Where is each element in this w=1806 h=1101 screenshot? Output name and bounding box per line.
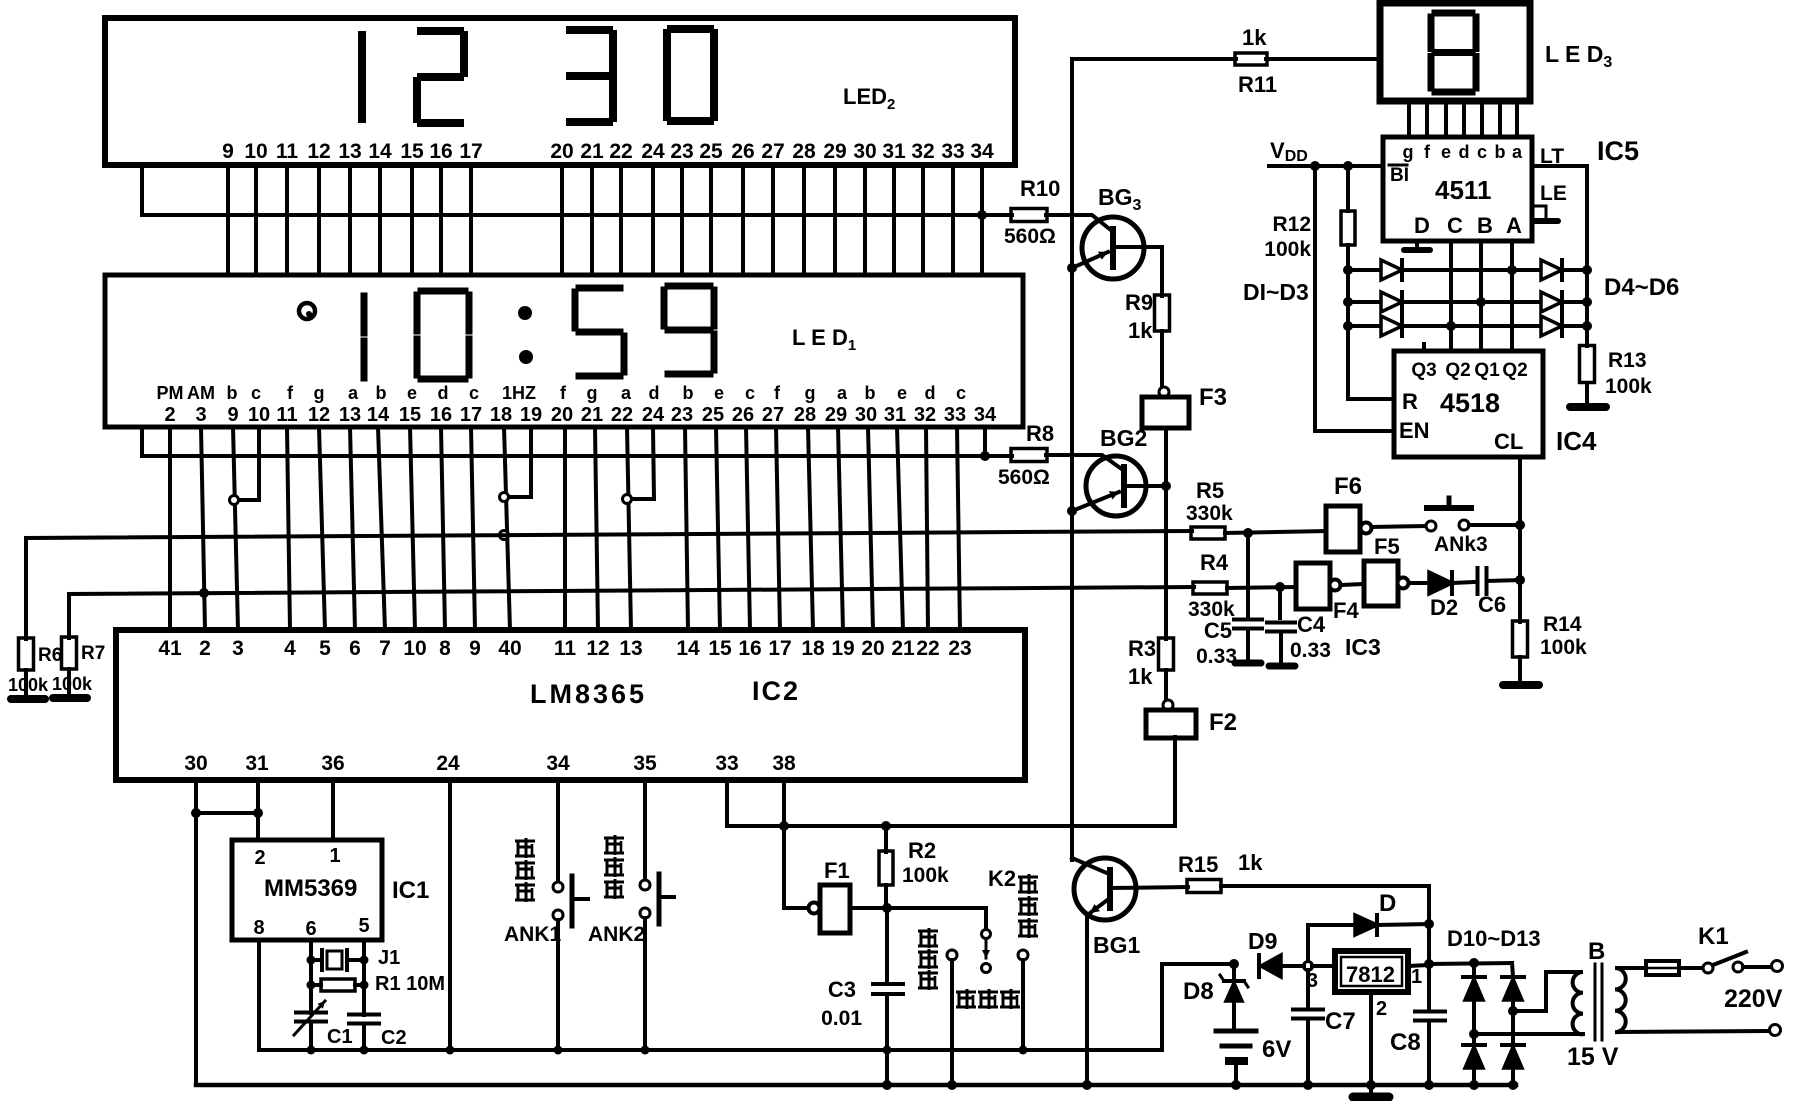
wire LED1 pin19 jog	[529, 427, 533, 497]
svg-text:MM5369: MM5369	[264, 875, 357, 902]
IC U2 LM8365 box	[116, 630, 1025, 780]
svg-text:IC2: IC2	[752, 676, 800, 706]
resistor R13 100k	[1580, 346, 1595, 383]
transistor BG1	[1074, 858, 1136, 920]
svg-text:1k: 1k	[1238, 850, 1263, 875]
svg-text:20: 20	[861, 637, 884, 660]
svg-text:33: 33	[941, 140, 964, 163]
wire left tap to primary bottom	[1474, 1032, 1583, 1036]
LED2 digit 1 (of 12)	[358, 35, 366, 73]
svg-text:IC4: IC4	[1556, 426, 1597, 456]
label 调时分	[1018, 876, 1038, 879]
wire 7812 pin2 to bus	[1369, 992, 1373, 1085]
svg-text:b: b	[1495, 142, 1506, 162]
wire IC2 pin36 to IC1 pin1	[331, 780, 335, 840]
svg-text:F6: F6	[1334, 473, 1362, 500]
wire K2 right contact to inner bus	[1021, 960, 1025, 1050]
svg-text:f: f	[287, 383, 294, 403]
wire IC4 CL pin rail	[1518, 457, 1522, 622]
svg-text:f: f	[1424, 142, 1431, 162]
svg-text:11: 11	[554, 637, 577, 660]
svg-text:2: 2	[1376, 998, 1387, 1020]
svg-text:R14: R14	[1543, 613, 1582, 636]
svg-text:BI: BI	[1390, 165, 1409, 186]
switch ANK2	[640, 880, 650, 890]
junction R2 top	[881, 821, 891, 831]
svg-text:5: 5	[358, 915, 369, 937]
svg-text:7: 7	[379, 637, 391, 660]
svg-text:R1 10M: R1 10M	[375, 973, 445, 995]
resistor R1 10M	[321, 979, 355, 991]
junction bridge left column top	[1469, 958, 1479, 968]
diode D5	[1481, 300, 1541, 304]
LED2 digit 3	[570, 26, 609, 34]
wire node to K2 common	[887, 908, 986, 929]
wire LED1 pin34 stub	[983, 427, 987, 456]
svg-text:B: B	[1588, 938, 1605, 965]
svg-text:0.01: 0.01	[821, 1007, 862, 1030]
wire node A from R6 to R5 (alarm line)	[26, 531, 1192, 639]
svg-text:6V: 6V	[1262, 1036, 1291, 1063]
svg-text:b: b	[683, 383, 694, 403]
wire IC2 pin31 to IC1 pin2	[256, 780, 260, 840]
ground R7	[67, 669, 71, 696]
svg-text:4518: 4518	[1440, 388, 1500, 418]
display LED3 box	[1380, 3, 1530, 101]
svg-text:C1: C1	[327, 1026, 353, 1048]
svg-text:17: 17	[460, 404, 482, 426]
svg-text:10: 10	[248, 404, 270, 426]
svg-text:C6: C6	[1478, 592, 1506, 617]
resistor R14 100k	[1513, 621, 1528, 657]
svg-text:12: 12	[308, 404, 330, 426]
diode D12	[1463, 1043, 1485, 1047]
svg-text:L E D3: L E D3	[1545, 41, 1612, 71]
svg-text:ANK1: ANK1	[504, 923, 561, 946]
svg-text:Q2: Q2	[1502, 360, 1527, 381]
svg-text:17: 17	[459, 140, 482, 163]
svg-text:a: a	[1512, 142, 1523, 162]
wire D4-D6 right rail to R13	[1585, 270, 1589, 346]
zener diode D8	[1232, 964, 1236, 980]
resistor R15 1k	[1187, 880, 1221, 893]
LED1 digit 1 (of 10)	[361, 296, 368, 333]
svg-text:c: c	[956, 383, 966, 403]
junction circle pin10 jog	[230, 496, 239, 505]
junction BG2 collector	[1161, 481, 1171, 491]
resistor R3 1k	[1159, 638, 1174, 670]
svg-text:28: 28	[794, 404, 816, 426]
wires LED3 to IC5	[1407, 101, 1411, 137]
junction bridge left tap	[1469, 1029, 1479, 1039]
label 双显示	[956, 991, 976, 994]
svg-text:D: D	[1414, 213, 1430, 238]
svg-text:R4: R4	[1200, 550, 1229, 575]
junction bridge right tap	[1508, 1006, 1518, 1016]
svg-text:16: 16	[429, 140, 452, 163]
svg-text:14: 14	[676, 637, 700, 660]
svg-text:C7: C7	[1325, 1008, 1356, 1035]
fuse	[1646, 961, 1679, 975]
svg-text:22: 22	[916, 637, 939, 660]
svg-text:IC5: IC5	[1597, 136, 1639, 166]
svg-text:IC3: IC3	[1345, 634, 1381, 660]
transformer B secondary winding	[1615, 968, 1626, 1032]
transistor BG3	[1082, 217, 1144, 279]
junction ANK3 on CL rail	[1515, 520, 1525, 530]
wire bridge top	[1429, 963, 1512, 964]
resistor R7	[62, 637, 77, 669]
svg-text:R12: R12	[1272, 213, 1311, 236]
svg-text:a: a	[837, 383, 848, 403]
svg-text:d: d	[438, 383, 449, 403]
IC U4 4518 box	[1394, 351, 1543, 457]
svg-text:R: R	[1402, 389, 1418, 414]
svg-text:13: 13	[339, 404, 361, 426]
svg-text:30: 30	[184, 752, 207, 775]
svg-text:18: 18	[801, 637, 825, 660]
svg-text:LE: LE	[1540, 182, 1567, 205]
wire IC2 pin34 to ANK1	[556, 780, 560, 882]
svg-text:34: 34	[546, 752, 570, 775]
svg-text:100k: 100k	[8, 675, 49, 695]
svg-text:a: a	[348, 383, 359, 403]
junction LED2 pin34 / R10 line	[977, 210, 987, 220]
wire D1-D3 left rail	[1348, 270, 1394, 399]
svg-text:30: 30	[855, 404, 877, 426]
svg-text:d: d	[649, 383, 660, 403]
svg-text:g: g	[314, 383, 325, 403]
svg-text:24: 24	[642, 404, 665, 426]
svg-text:11: 11	[276, 404, 297, 426]
wire F3 to BG2 collector to R3	[1164, 428, 1168, 639]
wire F4 to F5	[1341, 584, 1364, 585]
svg-text:21: 21	[580, 140, 604, 163]
svg-text:c: c	[745, 383, 755, 403]
diode D (right of 7812)	[1308, 925, 1355, 962]
svg-text:6: 6	[305, 918, 316, 940]
svg-text:30: 30	[853, 140, 876, 163]
svg-text:100k: 100k	[52, 674, 93, 694]
svg-text:12: 12	[586, 637, 609, 660]
svg-text:c: c	[251, 383, 261, 403]
svg-text:100k: 100k	[1605, 375, 1652, 398]
svg-text:1: 1	[1411, 966, 1422, 988]
wire F1 input	[784, 826, 808, 908]
IC U5 4511 box	[1383, 137, 1532, 241]
svg-text:c: c	[1477, 142, 1487, 162]
svg-text:e: e	[714, 383, 724, 403]
capacitor C3 0.01	[885, 908, 889, 980]
wire IC2 pin33 line to F2	[727, 737, 1175, 826]
svg-text:b: b	[865, 383, 876, 403]
gate F3	[1159, 387, 1169, 397]
svg-text:19: 19	[520, 404, 542, 426]
label 调月日	[918, 930, 938, 933]
resistor R9 1k	[1160, 247, 1164, 296]
junction circle line A	[500, 531, 509, 540]
svg-text:330k: 330k	[1186, 502, 1233, 525]
svg-text:33: 33	[944, 404, 966, 426]
resistor R12 100k	[1346, 166, 1350, 211]
wire 4511 C column	[1449, 241, 1453, 351]
svg-text:29: 29	[825, 404, 847, 426]
wire 4511 B column	[1479, 241, 1483, 351]
svg-text:D9: D9	[1248, 928, 1277, 954]
wire IC2 pin30 down-left rail	[194, 780, 198, 1085]
svg-text:1k: 1k	[1242, 25, 1267, 50]
svg-text:CL: CL	[1494, 429, 1523, 454]
switch ANK1	[553, 882, 563, 892]
svg-text:7812: 7812	[1346, 962, 1395, 987]
svg-text:D2: D2	[1430, 595, 1458, 620]
junction BG2 emitter on rail	[1067, 506, 1077, 516]
wire node B from R7 to R4 (snooze line)	[69, 587, 1194, 638]
wire F5 to D2	[1409, 581, 1429, 585]
svg-text:D10~D13: D10~D13	[1447, 926, 1541, 951]
svg-text:R10: R10	[1020, 176, 1060, 201]
diode D13	[1511, 1011, 1515, 1044]
diode D2 of D1~D3 group	[1348, 300, 1381, 304]
svg-text:g: g	[1403, 142, 1414, 162]
junction EN branch	[1310, 161, 1320, 171]
svg-text:DI~D3: DI~D3	[1243, 279, 1309, 305]
svg-text:f: f	[560, 383, 567, 403]
svg-text:L E D1: L E D1	[792, 325, 856, 354]
svg-text:LM8365: LM8365	[530, 679, 647, 709]
wire IC1 pin8 to inner ground bus	[257, 940, 261, 1050]
svg-text:36: 36	[321, 752, 344, 775]
capacitor C4 0.33	[1278, 587, 1282, 618]
svg-text:A: A	[1506, 213, 1522, 238]
wire VDD to IC4 EN	[1315, 166, 1394, 431]
svg-text:100k: 100k	[1264, 238, 1311, 261]
svg-text:d: d	[1459, 142, 1470, 162]
svg-text:F1: F1	[824, 858, 850, 883]
svg-text:14: 14	[367, 404, 390, 426]
wire LED1 pins to IC2 pins verticals	[168, 427, 172, 630]
svg-text:BG2: BG2	[1100, 425, 1147, 451]
ground R13	[1570, 403, 1606, 411]
terminal 220V bottom	[1770, 1025, 1781, 1036]
junction pin38	[779, 821, 789, 831]
svg-text:d: d	[925, 383, 936, 403]
svg-text:R3: R3	[1128, 636, 1156, 661]
svg-text:3: 3	[195, 404, 206, 426]
wire outer ground bus	[196, 1083, 1516, 1088]
diode D6	[1451, 324, 1541, 328]
svg-text:EN: EN	[1399, 418, 1430, 443]
svg-text:4: 4	[284, 637, 296, 660]
wire IC2 pin38 stub	[782, 780, 786, 826]
svg-text:19: 19	[831, 637, 854, 660]
wire R15 to +12V corner	[1221, 886, 1429, 964]
svg-text:14: 14	[368, 140, 392, 163]
svg-text:C3: C3	[828, 977, 856, 1002]
wire LED1 pin24 jog	[653, 427, 654, 499]
svg-text:F5: F5	[1374, 534, 1400, 559]
junction pin31 jumper	[253, 808, 263, 818]
svg-text:J1: J1	[378, 947, 400, 969]
svg-text:IC1: IC1	[392, 877, 429, 904]
wire LED1 pin10 jog	[257, 427, 261, 500]
diode D3	[1348, 324, 1381, 328]
LED2 digit 0	[671, 25, 710, 33]
svg-text:g: g	[587, 383, 598, 403]
wire IC1 pin6 branch	[309, 940, 313, 1013]
battery 6V	[1216, 1029, 1256, 1034]
ground below bus at 7812	[1369, 1085, 1373, 1094]
svg-text:R11: R11	[1238, 72, 1277, 97]
junction 7812 output node	[1424, 959, 1434, 969]
svg-text:100k: 100k	[1540, 636, 1587, 659]
svg-text:38: 38	[772, 752, 796, 775]
wire LED1 common line to R8	[142, 427, 1012, 456]
svg-text:8: 8	[439, 637, 451, 660]
crystal J1	[311, 958, 320, 962]
svg-text:K1: K1	[1698, 923, 1729, 950]
svg-text:12: 12	[307, 140, 330, 163]
svg-text:4511: 4511	[1435, 175, 1491, 205]
svg-text:3: 3	[232, 637, 244, 660]
svg-text:c: c	[469, 383, 479, 403]
svg-text:35: 35	[633, 752, 657, 775]
svg-text:34: 34	[974, 404, 997, 426]
wire BG1 emitter to outer bus	[1085, 914, 1089, 1085]
junction circle pin19 jog	[500, 493, 509, 502]
label 调低位	[604, 837, 624, 840]
wire R5 to F6	[1225, 531, 1326, 533]
svg-text:C4: C4	[1297, 612, 1326, 637]
junction pin30 jumper	[191, 808, 201, 818]
wire inner bus corner up to D9 node	[1162, 964, 1234, 1050]
svg-text:1k: 1k	[1128, 318, 1153, 343]
svg-text:B: B	[1477, 213, 1493, 238]
resistor R2 100k	[884, 826, 888, 852]
transformer B core	[1594, 964, 1597, 1040]
svg-text:13: 13	[619, 637, 642, 660]
LED1 digit 5	[579, 285, 620, 292]
wire R4 to F4	[1227, 587, 1296, 588]
gate F1	[809, 903, 820, 914]
svg-text:11: 11	[276, 140, 299, 163]
svg-text:16: 16	[738, 637, 761, 660]
svg-text:C5: C5	[1204, 618, 1232, 643]
svg-text:29: 29	[823, 140, 846, 163]
svg-text:13: 13	[338, 140, 361, 163]
svg-text:D: D	[1379, 890, 1396, 917]
junction diode D cathode	[1424, 919, 1434, 929]
wire VDD line	[1269, 164, 1383, 168]
svg-text:17: 17	[768, 637, 791, 660]
svg-text:R2: R2	[908, 838, 936, 863]
svg-text:26: 26	[732, 404, 754, 426]
svg-text:R13: R13	[1608, 349, 1647, 372]
wire IC2 pin24 to inner bus	[448, 780, 452, 1050]
svg-text:34: 34	[970, 140, 994, 163]
svg-text:K2: K2	[988, 866, 1016, 891]
diode D11	[1512, 963, 1513, 976]
switch K2 selector	[982, 930, 991, 939]
svg-text:2: 2	[254, 847, 265, 869]
svg-text:C8: C8	[1390, 1029, 1421, 1056]
svg-text:15: 15	[708, 637, 732, 660]
svg-text:8: 8	[253, 917, 264, 939]
resistor R8	[1011, 449, 1047, 462]
wire right tap to primary top	[1513, 972, 1578, 1011]
svg-text:25: 25	[702, 404, 724, 426]
wire K2 left contact to outer bus	[950, 960, 954, 1085]
svg-text:15 V: 15 V	[1567, 1043, 1619, 1071]
LED1 colon dots	[518, 306, 532, 320]
capacitor C6	[1476, 568, 1480, 594]
wire LED2 common line to R10	[142, 165, 1012, 215]
wire jumper pins30-31	[196, 811, 258, 815]
wire secondary top to fuse	[1620, 966, 1646, 970]
ground R14	[1503, 681, 1539, 689]
svg-text:23: 23	[948, 637, 971, 660]
svg-text:21: 21	[581, 404, 603, 426]
svg-text:27: 27	[761, 140, 784, 163]
svg-text:15: 15	[400, 140, 424, 163]
svg-text:560Ω: 560Ω	[998, 466, 1050, 489]
svg-text:Q2: Q2	[1445, 360, 1470, 381]
resistor R11 1k	[1235, 53, 1267, 65]
svg-text:Q3: Q3	[1411, 360, 1436, 381]
junction R12 top	[1343, 161, 1353, 171]
wire R11 line from rail to LED3	[1072, 57, 1236, 61]
diode D10	[1472, 963, 1476, 976]
svg-text:10: 10	[244, 140, 267, 163]
gate F2	[1163, 700, 1173, 710]
regulator IC 7812 box	[1335, 951, 1408, 992]
diode D4	[1512, 268, 1541, 272]
svg-text:1k: 1k	[1128, 664, 1153, 689]
svg-text:C2: C2	[381, 1027, 407, 1049]
svg-text:220V: 220V	[1724, 985, 1783, 1013]
capacitor C1 (trimmer)	[296, 1011, 326, 1015]
svg-text:16: 16	[430, 404, 452, 426]
diode D2	[1429, 572, 1452, 594]
svg-text:23: 23	[670, 140, 693, 163]
junction LED1 pin34 / R8 line	[980, 451, 990, 461]
svg-text:40: 40	[498, 637, 521, 660]
svg-text:0.33: 0.33	[1290, 639, 1331, 662]
svg-text:F3: F3	[1199, 384, 1227, 411]
wire F6 to ANK3	[1372, 526, 1426, 527]
LED2 digit 2	[421, 27, 460, 35]
svg-text:24: 24	[641, 140, 665, 163]
svg-text:31: 31	[882, 140, 906, 163]
junction circle pin24 jog	[623, 495, 632, 504]
LED1 digit 9	[668, 283, 710, 290]
gate F4	[1296, 563, 1330, 609]
svg-text:5: 5	[319, 637, 331, 660]
svg-text:R6: R6	[38, 645, 62, 666]
svg-text:26: 26	[731, 140, 754, 163]
IC U1 MM5369 box	[232, 840, 382, 940]
svg-text:20: 20	[551, 404, 573, 426]
svg-text:F4: F4	[1333, 598, 1359, 623]
svg-text:R9: R9	[1125, 290, 1153, 315]
display LED2 box	[105, 18, 1015, 165]
svg-text:g: g	[805, 383, 816, 403]
svg-text:a: a	[621, 383, 632, 403]
svg-text:22: 22	[609, 140, 632, 163]
wire 7812 pin3	[1312, 964, 1335, 968]
junction D8 tap	[1229, 959, 1239, 969]
resistor R10	[1011, 209, 1047, 222]
